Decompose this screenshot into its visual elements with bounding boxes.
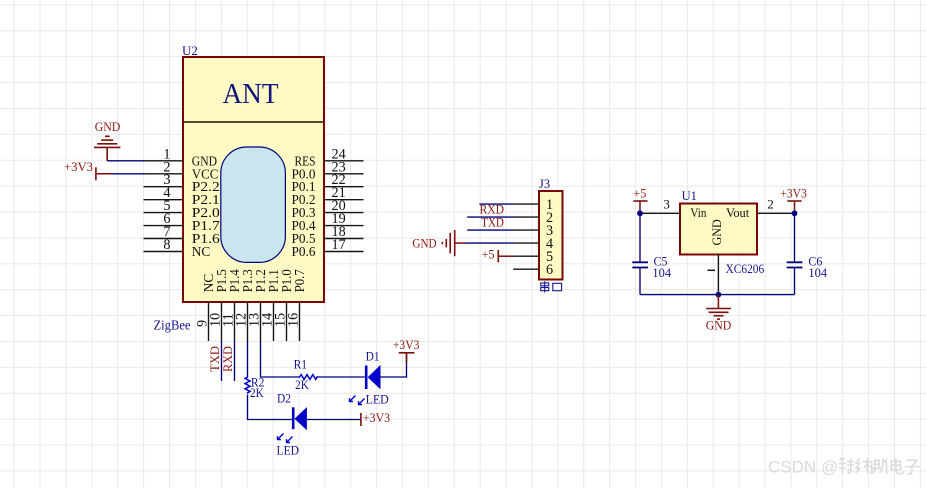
pin 4 P2.1 [144,185,220,207]
U1 pin 2 [757,197,795,214]
pin 16 P0.7 bottom [286,269,308,341]
junction at bottom rail [716,292,722,298]
wire left vertical to C5 [639,213,641,262]
svg-text:+5: +5 [633,187,646,201]
svg-text:2: 2 [767,197,774,212]
svg-text:CSDN @: CSDN @ [768,458,838,477]
svg-text:U2: U2 [182,43,198,58]
capacitor C5 [632,255,672,281]
resistor R2 [245,376,264,400]
J3 pin 3 stub [514,229,539,231]
pin 15 P1.0 bottom [273,269,295,341]
comment ZigBee [154,318,191,333]
svg-text:TXD: TXD [481,215,504,229]
pin 20 P0.3 [292,198,364,220]
wire pin 10 down [221,341,223,381]
junction at +3V3 pin2 [792,210,798,216]
wire TXD [467,216,514,218]
wire C5 to bottom [639,268,641,295]
svg-text:17: 17 [332,237,346,253]
svg-text:LED: LED [277,444,300,458]
pin 18 P0.5 [292,224,364,246]
wire GND to J3 pin 4 [465,242,514,244]
svg-text:XC6206: XC6206 [726,261,765,276]
pin 10 P1.5 bottom [208,269,230,341]
pin 23 P0.0 [292,159,364,181]
svg-text:D2: D2 [277,392,291,406]
pin 5 P2.0 [144,198,220,220]
svg-text:+3V3: +3V3 [780,187,807,201]
J3 pin 1 stub [514,203,539,205]
svg-text:U1: U1 [682,189,697,203]
wire C6 to bottom [794,268,796,295]
svg-text:Vin: Vin [690,206,707,220]
pin 3 P2.2 [144,172,220,194]
pin 14 P1.1 bottom [260,269,282,341]
svg-text:2K: 2K [250,386,264,400]
net label TXD [208,346,222,372]
power +5 at J3 [482,248,514,263]
svg-text:RXD: RXD [221,346,235,372]
svg-text:D1: D1 [366,350,380,364]
power +3V3 top-left [64,160,112,180]
svg-text:P0.7: P0.7 [292,269,307,292]
wire R2 to D2 corner [248,395,292,420]
wire GND to pin 1 [107,160,144,162]
svg-text:+5: +5 [482,248,495,262]
wire pin 12 to R2 [247,341,249,377]
pin 7 P1.6 [144,224,220,246]
pin 13 P1.2 bottom [247,269,269,341]
wire D2 to +3V3 [307,419,361,421]
pin 19 P0.4 [292,211,364,233]
pin 11 P1.4 bottom [221,269,243,341]
svg-text:104: 104 [652,266,671,280]
watermark CJK glyph zi [905,460,920,474]
J3 pin 4 stub [514,242,539,244]
comment XC6206 [726,261,765,276]
connector J3 designator [539,177,550,191]
junction at +5 pin3 [637,210,643,216]
svg-text:GND: GND [706,318,732,333]
svg-text:104: 104 [808,266,827,280]
wire pin 11 down [234,341,236,381]
svg-text:P0.6: P0.6 [292,244,316,259]
svg-text:J3: J3 [539,177,550,191]
svg-text:LED: LED [366,393,389,407]
watermark CJK glyph na [856,458,872,473]
comment 串口 serial label [541,281,562,292]
svg-text:+3V3: +3V3 [363,411,391,425]
watermark CJK glyph te [839,458,855,474]
ground GND at J3 [412,230,465,256]
power +5 at U1 [633,187,647,214]
pin 24 RES [295,146,364,168]
svg-text:8: 8 [163,237,170,253]
regulator U1 body [680,204,757,255]
resistor R1 [294,358,318,393]
pin 22 P0.1 [292,172,364,194]
U1 pin 3 [640,197,680,214]
ground GND top-left [94,119,120,161]
net label TXD at J3 [481,215,504,229]
pin 8 NC [144,237,211,259]
svg-text:+3V3: +3V3 [393,338,420,352]
connector J3 body [539,191,563,280]
wire bottom rail [640,294,795,296]
svg-text:6: 6 [546,262,553,278]
LED D1 [366,350,381,390]
J3 pin 6 stub [513,268,539,270]
wire right vertical to C6 [794,213,796,262]
pin 6 P1.7 [144,211,220,233]
power +3V3 at D2 [361,411,390,426]
watermark CJK glyph si [872,458,887,473]
svg-text:Vout: Vout [726,206,750,220]
watermark CJK glyph dian [891,458,903,474]
LED D2 arrows [277,434,300,458]
pin 2 VCC [144,159,219,181]
net label RXD at J3 [480,203,505,217]
svg-text:GND: GND [710,219,724,245]
svg-text:GND: GND [95,119,121,134]
pin 17 P0.6 [292,237,364,259]
svg-text:R1: R1 [294,358,308,372]
power +3V3 at D1 [393,338,420,362]
svg-text:GND: GND [412,235,436,250]
power +3V3 at U1 [780,187,807,214]
J3 pin 5 stub [514,255,539,257]
LED D1 arrows [350,393,389,407]
regulator U1 designator [682,189,697,203]
U1 GND pin wire [717,255,719,295]
wire RXD [479,203,514,205]
op-amp U2 designator [182,43,198,58]
chip inner antenna region [221,147,286,262]
IC U2 body [183,57,324,302]
pin 1 GND [144,146,218,168]
U1 pin 1 GND dash [708,269,716,271]
wire to J3 pin 3 [467,229,514,231]
svg-text:3: 3 [663,197,670,212]
wire R1 to D1 [317,376,365,378]
watermark CSDN [768,458,838,477]
wire pin 13 to R1 [261,341,300,377]
svg-text:+3V3: +3V3 [64,160,93,174]
net label RXD [221,346,235,372]
svg-text:ZigBee: ZigBee [154,318,191,333]
svg-text:16: 16 [286,313,302,327]
LED D2 [277,392,307,431]
pin 9 NC bottom [195,274,217,341]
svg-text:2K: 2K [295,378,309,392]
svg-text:ANT: ANT [223,78,279,110]
pin 12 P1.3 bottom [234,269,256,341]
capacitor C6 [787,255,828,281]
pin 21 P0.2 [292,185,364,207]
ground GND at U1 [706,295,732,333]
wire D1 to +3V3 stem [381,353,407,377]
svg-text:NC: NC [192,244,211,259]
wire +3V3 to pin 2 [112,173,144,175]
J3 pin 2 stub [514,216,539,218]
svg-text:TXD: TXD [208,346,222,372]
